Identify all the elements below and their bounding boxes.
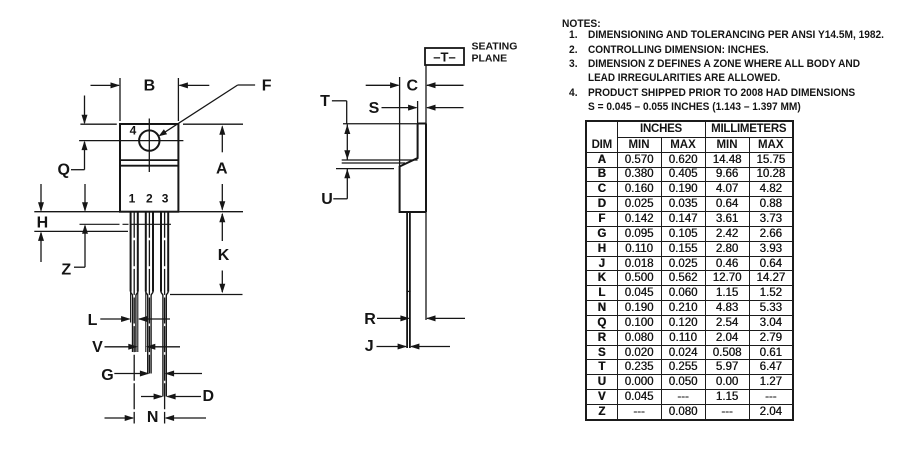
svg-text:G: G (101, 367, 113, 384)
svg-text:A: A (216, 161, 228, 178)
svg-text:B: B (144, 78, 156, 95)
svg-text:C: C (407, 77, 419, 94)
svg-text:1: 1 (129, 192, 136, 206)
svg-text:L: L (88, 312, 98, 329)
svg-text:D: D (203, 388, 215, 405)
svg-text:H: H (37, 215, 49, 232)
svg-text:2: 2 (146, 192, 153, 206)
svg-text:3: 3 (162, 192, 169, 206)
svg-text:Z: Z (61, 262, 71, 279)
svg-text:U: U (321, 191, 333, 208)
svg-text:R: R (364, 311, 376, 328)
svg-text:–T–: –T– (433, 50, 455, 65)
svg-text:4: 4 (130, 124, 137, 138)
svg-text:J: J (365, 338, 374, 355)
svg-text:V: V (92, 339, 103, 356)
svg-text:Q: Q (57, 162, 69, 179)
svg-text:F: F (262, 78, 272, 95)
svg-text:K: K (218, 247, 230, 264)
svg-text:PLANE: PLANE (472, 52, 508, 64)
svg-text:SEATING: SEATING (472, 41, 518, 53)
svg-text:T: T (320, 93, 330, 110)
svg-text:N: N (147, 409, 159, 426)
svg-text:S: S (369, 100, 380, 117)
